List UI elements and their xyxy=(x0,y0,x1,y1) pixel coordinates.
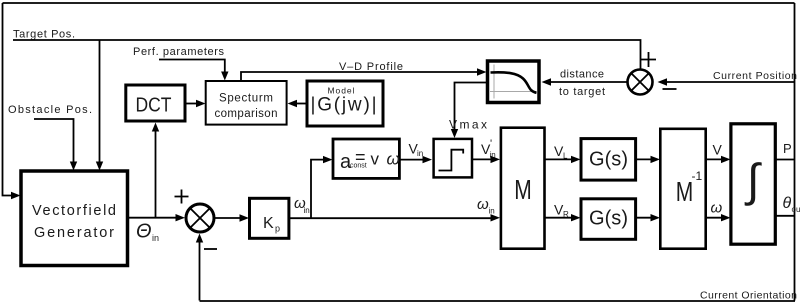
svg-text:in: in xyxy=(304,206,310,215)
summer: position error junction xyxy=(628,70,653,95)
svg-text:v: v xyxy=(371,150,380,169)
block: V-D profile curve box xyxy=(488,61,540,103)
wire: omega_in from Kp to M xyxy=(289,217,495,219)
svg-text:ω: ω xyxy=(477,196,489,213)
svg-text:=: = xyxy=(355,147,366,167)
svg-text:in: in xyxy=(490,151,496,160)
block: integrator xyxy=(731,124,775,244)
svg-text:DCT: DCT xyxy=(136,95,172,117)
svg-text:': ' xyxy=(490,138,492,150)
block: Vectorfield Generator xyxy=(21,171,128,266)
wire: theta_out to right edge xyxy=(775,215,794,217)
svg-text:P: P xyxy=(783,141,792,156)
svg-text:Perf. parameters: Perf. parameters xyxy=(133,46,225,58)
svg-text:|G(jw)|: |G(jw)| xyxy=(311,95,377,116)
wire: DCT to Specturm comparison xyxy=(185,103,200,105)
svg-text:G(s): G(s) xyxy=(589,208,628,230)
wire: Vmax from V-D block down into limiter xyxy=(455,83,488,133)
svg-text:comparison: comparison xyxy=(215,108,278,120)
wire: branch up into a_const block xyxy=(311,160,327,219)
svg-text:ω: ω xyxy=(387,150,400,169)
svg-text:ou: ou xyxy=(792,205,800,214)
wire: heading error to Kp xyxy=(214,217,244,219)
wire: right edge feedback line xyxy=(794,3,796,301)
svg-text:Θ: Θ xyxy=(136,221,152,243)
svg-text:Obstacle Pos.: Obstacle Pos. xyxy=(8,104,92,116)
wire: distance to target from summing junction into V-D block xyxy=(547,81,627,83)
wire: V from M inverse to integrator xyxy=(706,158,725,160)
wire: perf parameters into Specturm comparison xyxy=(159,60,225,76)
svg-text:∫: ∫ xyxy=(744,154,762,206)
block: M matrix xyxy=(501,128,545,249)
summer: heading error junction xyxy=(186,204,214,232)
svg-text:ω: ω xyxy=(711,200,723,217)
wire: P output to right edge xyxy=(775,159,794,161)
svg-text:Current Orientation: Current Orientation xyxy=(700,290,797,302)
block: saturation limiter xyxy=(434,139,472,178)
wire: top feedback (current position) line xyxy=(3,2,795,4)
wire: V_in from a_const to limiter xyxy=(399,159,426,161)
wire: G(s) to M inverse xyxy=(636,158,655,160)
wire: G(s) to M inverse xyxy=(636,217,655,219)
svg-text:Vmax: Vmax xyxy=(449,118,487,132)
svg-text:L: L xyxy=(563,152,568,161)
svg-text:M: M xyxy=(514,174,532,205)
svg-text:Specturm: Specturm xyxy=(219,93,273,105)
svg-text:G(s): G(s) xyxy=(589,149,628,171)
wire: Current Position into summing junction xyxy=(663,81,795,83)
block: M inverse xyxy=(660,129,705,249)
wire: model into Specturm comparison xyxy=(293,103,307,105)
wire: Target Pos. line to position summing junction xyxy=(13,40,641,69)
wire: V-D Profile from comparison to V-D block xyxy=(241,72,481,81)
svg-text:-1: -1 xyxy=(692,169,703,183)
wire: V_L from M to G(s) xyxy=(545,158,576,160)
svg-text:V–D Profile: V–D Profile xyxy=(339,61,403,73)
svg-text:θ: θ xyxy=(783,195,792,212)
svg-text:distance: distance xyxy=(560,69,604,81)
wire: theta_in from generator to summing junction xyxy=(128,217,180,219)
block: Specturm comparison xyxy=(206,81,287,125)
svg-text:to target: to target xyxy=(559,86,605,98)
wire: target pos branch down into Vectorfield Generator xyxy=(99,40,101,165)
wire: left feedback into Vectorfield Generator xyxy=(3,3,15,196)
svg-text:p: p xyxy=(275,224,280,234)
block: model |G(jw)| xyxy=(307,81,383,126)
svg-text:Target Pos.: Target Pos. xyxy=(13,29,75,41)
wire: V_R from M to G(s) xyxy=(545,217,576,219)
svg-text:K: K xyxy=(263,215,274,232)
block: a_const = v omega xyxy=(333,139,399,178)
wire: Obstacle Pos. into Vectorfield Generator xyxy=(34,119,74,165)
svg-text:Current Position: Current Position xyxy=(713,70,797,82)
block: G(s) left wheel xyxy=(581,139,636,181)
wire: bottom feedback (current orientation) line xyxy=(200,300,796,302)
svg-text:Vectorfield: Vectorfield xyxy=(32,203,116,219)
block: G(s) right wheel xyxy=(581,199,636,240)
svg-text:R: R xyxy=(563,210,569,219)
svg-text:V: V xyxy=(713,142,723,158)
wire: omega from M inverse to integrator xyxy=(706,217,725,219)
svg-text:in: in xyxy=(152,233,159,243)
svg-text:in: in xyxy=(489,207,495,216)
svg-text:in: in xyxy=(417,149,423,158)
wire: V'_in from limiter to M xyxy=(472,158,495,160)
wire: orientation feedback up into summing junction minus xyxy=(199,240,201,301)
block: DCT xyxy=(126,85,185,121)
block: Kp gain xyxy=(250,198,289,238)
wire: branch up into DCT xyxy=(155,129,157,218)
